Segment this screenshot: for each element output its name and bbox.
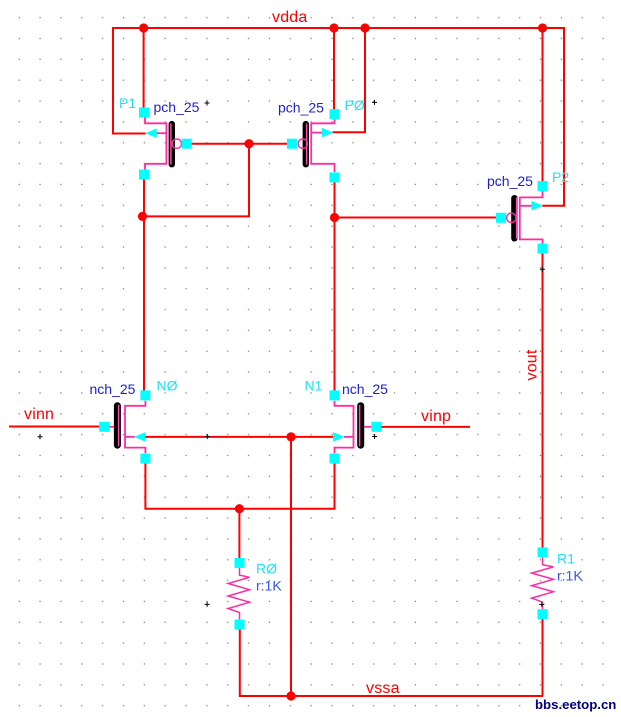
P0 channel line [310, 123, 312, 165]
wire gate mirror P1-P0 [192, 143, 288, 145]
P2 bulk arrow [532, 201, 543, 211]
P1 source pin [139, 108, 149, 118]
N1 gate stub [360, 426, 372, 428]
svg-text:R1: R1 [557, 551, 575, 567]
P2 origin marker [540, 267, 545, 272]
wire R0 bottom drop [240, 630, 543, 697]
svg-text:PØ: PØ [345, 97, 365, 113]
P1 bulk arrow [145, 128, 156, 138]
wire vinp input [381, 426, 470, 428]
P1 drain lead [145, 164, 166, 170]
P2 channel bar [511, 195, 517, 242]
node vdda-P0 source junction [329, 23, 338, 32]
wire P2 gate from mirror output [335, 217, 498, 219]
N0 gate poly line [118, 405, 120, 447]
P0 gate bubble [298, 139, 307, 148]
wire P2 source drop [542, 28, 544, 182]
node bulk rail tail junction [286, 432, 295, 441]
N1 bulk lead [344, 436, 354, 438]
R0 origin marker [205, 602, 210, 607]
N0 drain lead [125, 401, 145, 406]
N1 gate poly line [359, 405, 361, 447]
svg-text:vinp: vinp [421, 408, 451, 425]
svg-text:pch_25: pch_25 [487, 173, 533, 189]
wire P0 source drop [333, 28, 335, 110]
node vdda-P2 source junction [538, 23, 547, 32]
R0 top pin [235, 558, 245, 568]
svg-text:RØ: RØ [256, 561, 277, 577]
P2 bulk lead [520, 205, 532, 207]
node vdda-P0 bulk junction [360, 23, 369, 32]
wire vinn input [9, 426, 100, 428]
P0 gate poly line [306, 124, 308, 165]
N0 bulk lead [125, 436, 135, 438]
transistor P2 pch_25 [487, 169, 569, 272]
svg-text:NØ: NØ [157, 378, 178, 394]
R0 bottom pin [235, 620, 245, 630]
svg-text:vout: vout [524, 349, 541, 380]
svg-text:bbs.eetop.cn: bbs.eetop.cn [535, 697, 616, 712]
P0 bulk arrow [322, 128, 333, 138]
wire P0 bulk to vdda [333, 28, 366, 132]
resistor R0 r:1K [205, 558, 283, 630]
transistor P1 pch_25 [119, 95, 210, 180]
P1 gate poly line [170, 124, 172, 165]
P0 gate pin [287, 139, 297, 149]
P1 gate bubble [172, 139, 181, 148]
P0 drain lead [311, 164, 334, 172]
svg-text:P1: P1 [119, 95, 136, 111]
N0 source lead [125, 448, 145, 454]
N0 origin marker [205, 434, 210, 439]
wire P2 bulk to vdda right drop [542, 27, 564, 206]
N0 source pin [140, 454, 150, 464]
P1 channel line [165, 123, 167, 165]
P1 channel bar [169, 121, 175, 167]
N1 channel line [353, 405, 355, 448]
N0 bulk arrow [134, 432, 145, 442]
N1 drain lead [335, 401, 354, 406]
P2 source pin [538, 181, 548, 191]
P1 drain pin [139, 170, 149, 180]
transistor N0 nch_25 [38, 378, 210, 464]
N0 channel bar [114, 402, 121, 449]
N1 source pin [330, 454, 340, 464]
svg-text:vdda: vdda [272, 9, 308, 26]
P1 gate pin [182, 139, 192, 149]
node P1 drain diode junction [138, 212, 147, 221]
wire tail to vssa [290, 437, 292, 696]
R0 zigzag body [228, 568, 250, 620]
P0 bulk lead [311, 132, 322, 134]
wire R1 bottom to vssa [542, 619, 544, 697]
svg-text:r:1K: r:1K [256, 577, 282, 593]
N1 source lead [335, 448, 354, 454]
svg-text:r:1K: r:1K [557, 567, 583, 583]
P0 drain pin [330, 172, 340, 182]
transistor P0 pch_25 [278, 97, 377, 182]
N1 channel bar [357, 402, 364, 449]
wire vdda rail [112, 27, 565, 29]
wire mirror diode link [143, 144, 250, 217]
N0 drain pin [140, 390, 150, 400]
svg-text:pch_25: pch_25 [154, 99, 200, 115]
wire P1 bulk to vdda left drop [113, 27, 146, 134]
N1 drain pin [330, 390, 340, 400]
P1 bulk lead [155, 132, 167, 134]
svg-text:vinn: vinn [24, 406, 54, 423]
P1 source lead [145, 117, 166, 123]
P2 gate pin [496, 213, 506, 223]
wire vout column P2 drain to R1 [542, 253, 544, 548]
wire right column P0 drain to N1 drain [334, 182, 336, 391]
node mirror gate junction [244, 139, 253, 148]
svg-text:nch_25: nch_25 [90, 381, 136, 397]
wire P1 source drop [143, 28, 145, 109]
P1 origin marker [205, 101, 210, 106]
wire N0 source drop and source rail [145, 463, 334, 509]
R1 bottom pin [538, 609, 548, 619]
P2 drain pin [538, 244, 548, 254]
R1 top pin [538, 547, 548, 557]
node source rail R0 junction [235, 504, 244, 513]
N1 bulk arrow [333, 432, 344, 442]
svg-text:N1: N1 [305, 378, 323, 394]
transistor N1 nch_25 [305, 378, 389, 464]
wire R0 top drop [238, 509, 240, 559]
N1 gate pin [371, 422, 381, 432]
vinn origin marker [38, 434, 43, 439]
node P0 drain output junction [330, 213, 339, 222]
N0 gate stub [109, 426, 118, 428]
N0 gate pin [99, 422, 109, 432]
P0 source lead [311, 119, 334, 123]
wire bulk rail of diff pair [144, 436, 335, 438]
svg-text:nch_25: nch_25 [342, 381, 388, 397]
resistor R1 r:1K [532, 547, 584, 619]
wire left column P1 drain to N0 drain [143, 180, 145, 391]
R1 origin marker [539, 602, 544, 607]
node vssa tail junction [286, 691, 295, 700]
P2 drain lead [520, 239, 543, 244]
P0 channel bar [303, 121, 309, 167]
node vdda-P1 source junction [139, 23, 148, 32]
P2 channel line [519, 197, 521, 241]
P0 origin marker [372, 100, 377, 105]
R1 zigzag body [532, 557, 554, 609]
N1 origin marker [372, 434, 377, 439]
P2 source lead [520, 191, 543, 198]
N0 channel line [124, 405, 126, 448]
svg-text:pch_25: pch_25 [278, 100, 324, 116]
P2 gate bubble [507, 213, 516, 222]
P0 source pin [330, 109, 340, 119]
svg-text:vssa: vssa [366, 680, 400, 697]
P2 gate poly line [516, 198, 518, 239]
svg-text:P2: P2 [552, 169, 569, 185]
